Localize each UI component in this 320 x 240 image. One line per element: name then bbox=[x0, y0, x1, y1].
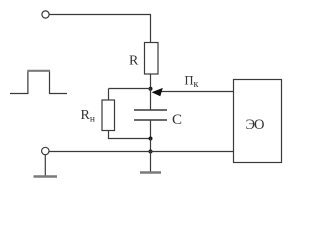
wire top vertical to R bbox=[150, 15, 152, 43]
wire node C to ground 2 bbox=[150, 152, 152, 173]
input terminal top bbox=[42, 11, 49, 18]
svg-text:Rн: Rн bbox=[81, 108, 95, 125]
wire Rn bottom lead bbox=[109, 131, 151, 139]
capacitor C bottom plate bbox=[134, 119, 167, 121]
svg-text:R: R bbox=[129, 54, 139, 69]
box ЭО bbox=[234, 80, 282, 163]
svg-text:С: С bbox=[172, 112, 182, 128]
node B bbox=[149, 137, 153, 141]
bottom wire bbox=[49, 151, 234, 153]
node A bbox=[149, 87, 153, 91]
svg-text:Пк: Пк bbox=[185, 74, 199, 91]
capacitor C top plate bbox=[134, 109, 167, 111]
wire node A down to capacitor bbox=[150, 89, 152, 111]
node C bbox=[149, 150, 153, 154]
ground 2 bbox=[140, 171, 161, 173]
wire node A left bbox=[109, 88, 151, 90]
wire top horizontal bbox=[49, 14, 151, 16]
wire node B to node C bbox=[150, 139, 152, 152]
resistor R bbox=[145, 43, 159, 75]
arrowhead Пк bbox=[152, 88, 163, 96]
svg-text:ЭО: ЭО bbox=[246, 117, 265, 133]
wire arrow from ЭО bbox=[161, 91, 234, 93]
wire R bottom to node A bbox=[150, 74, 152, 89]
wire capacitor bottom to node B bbox=[150, 120, 152, 139]
wire terminal to ground 1 bbox=[44, 155, 46, 176]
wire down to Rn bbox=[108, 89, 110, 101]
pulse waveform bbox=[10, 71, 67, 94]
resistor Rн bbox=[102, 100, 115, 131]
ground 1 bbox=[34, 175, 58, 177]
input terminal bottom bbox=[42, 147, 49, 154]
